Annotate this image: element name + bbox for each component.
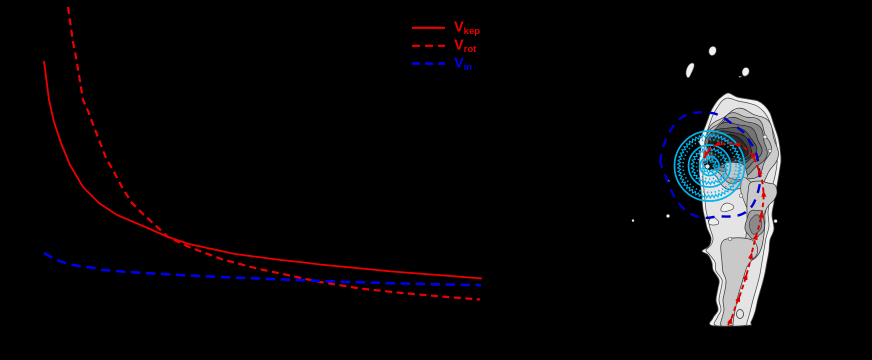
white island 2 (709, 217, 719, 225)
trajectory arrowhead 8 (758, 168, 763, 175)
cyan dotted circle r26.5 (683, 140, 736, 193)
head contour L6 (705, 122, 762, 170)
head contour L3 (704, 108, 778, 190)
small circle head a (763, 135, 767, 139)
trajectory arrowhead 9 (750, 152, 757, 159)
tail dark oval core (749, 215, 761, 235)
curve Vrot (red dashed) (68, 7, 480, 300)
tail medium column (743, 181, 777, 260)
trajectory arrowhead 4 (748, 252, 753, 259)
curve Vkep (red solid) (44, 61, 482, 279)
trajectory arrowhead 10 (733, 143, 740, 148)
cyan solid circle r9.5 (700, 157, 719, 176)
head dark core (711, 142, 743, 158)
white island 1 (721, 203, 734, 212)
tiny dot left (667, 180, 670, 183)
head contour L7 (708, 127, 757, 166)
outer white contour blob (699, 93, 781, 326)
trajectory arrowhead 12 (704, 151, 709, 158)
trajectory arrowhead 2 (735, 295, 740, 302)
lower medium strip (720, 238, 757, 326)
neck medium gray (741, 177, 766, 219)
mouth light intrusion (725, 162, 748, 179)
tiny dot mid (666, 214, 669, 217)
dark hook around centre (704, 155, 729, 170)
small blob top-mid (709, 46, 717, 55)
small ring bottom (737, 310, 744, 319)
cyan solid circle r35 (675, 131, 745, 201)
head contour L4 (707, 113, 772, 184)
trajectory arrowhead 6 (759, 211, 764, 218)
trajectory arrowhead 5 (753, 233, 758, 240)
red dashed infall trajectory (704, 144, 764, 325)
trajectory arrowhead 1 (727, 317, 732, 324)
head contour L8 (707, 131, 751, 164)
cyan zigzag circle r17 (691, 148, 728, 185)
curve Vin (blue dashed) (44, 253, 481, 285)
tiny dot lower-left (632, 219, 634, 221)
trajectory arrowhead 7 (761, 190, 766, 197)
tail dark oval (745, 210, 765, 239)
small circle tail b (774, 219, 778, 223)
small circle tail c (728, 237, 732, 241)
legend line Vrot (412, 45, 445, 47)
cyan dotted circle r13 (697, 153, 723, 179)
cyan zigzag circle r6.5 (702, 158, 718, 174)
legend line Vkep (412, 27, 445, 29)
cyan solid circle r21 (689, 145, 731, 187)
small blob top-right (739, 67, 750, 77)
blue dashed velocity contour (660, 112, 760, 218)
legend line Vin (412, 62, 445, 65)
small circle head b (768, 149, 772, 153)
head contour L10 (710, 138, 746, 160)
centre dot (706, 165, 710, 169)
light gray contour L1 (703, 98, 777, 326)
trajectory arrowhead 11 (714, 141, 721, 146)
head contour L5 (707, 117, 768, 177)
cyan zigzag circle r30.5 (678, 134, 742, 198)
small circle tail a (739, 194, 743, 198)
small blob top-left (686, 63, 694, 78)
trajectory arrowhead 3 (743, 273, 748, 280)
head contour L9 (709, 135, 748, 161)
cyan dotted circle r4 (706, 162, 714, 170)
